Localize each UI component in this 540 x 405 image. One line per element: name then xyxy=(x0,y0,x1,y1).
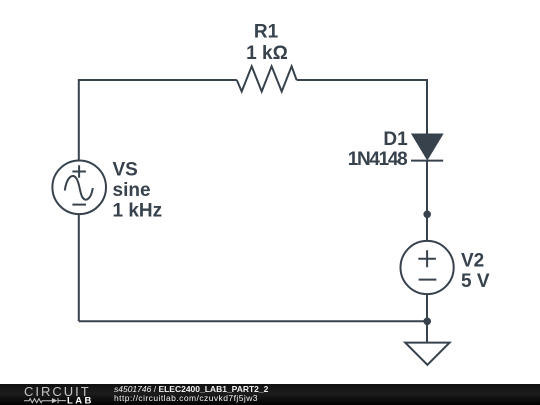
svg-text:VS: VS xyxy=(113,160,138,181)
svg-text:D1: D1 xyxy=(383,129,408,150)
svg-text:1N4148: 1N4148 xyxy=(348,149,408,170)
wire VS to bottom-left corner xyxy=(78,214,80,321)
node junction above V2 xyxy=(423,211,431,219)
CircuitLab logo glyph (wire-resistor-diode) xyxy=(24,398,66,403)
wire diode to V2 xyxy=(426,161,428,242)
svg-text:5 V: 5 V xyxy=(461,271,490,292)
wire node to ground xyxy=(426,321,428,342)
ground xyxy=(405,343,449,365)
voltage source VS xyxy=(52,161,106,215)
diode D1 xyxy=(411,135,443,161)
svg-text:V2: V2 xyxy=(461,251,484,272)
wire V2 to bottom node xyxy=(426,294,428,321)
voltage source V2 xyxy=(401,241,454,294)
svg-text:1 kΩ: 1 kΩ xyxy=(246,43,288,64)
node junction bottom-right xyxy=(423,318,431,326)
svg-text:LAB: LAB xyxy=(67,395,94,405)
wire bottom xyxy=(79,320,427,322)
svg-text:sine: sine xyxy=(113,180,151,201)
footer bar xyxy=(0,384,540,405)
wire resistor to top-right corner xyxy=(297,80,427,135)
svg-text:http://circuitlab.com/czuvkd7f: http://circuitlab.com/czuvkd7fj5jw3 xyxy=(114,393,258,403)
wire top-left to resistor xyxy=(79,80,237,161)
resistor R1 xyxy=(237,66,297,91)
svg-text:R1: R1 xyxy=(254,22,279,43)
svg-text:1 kHz: 1 kHz xyxy=(113,200,163,221)
